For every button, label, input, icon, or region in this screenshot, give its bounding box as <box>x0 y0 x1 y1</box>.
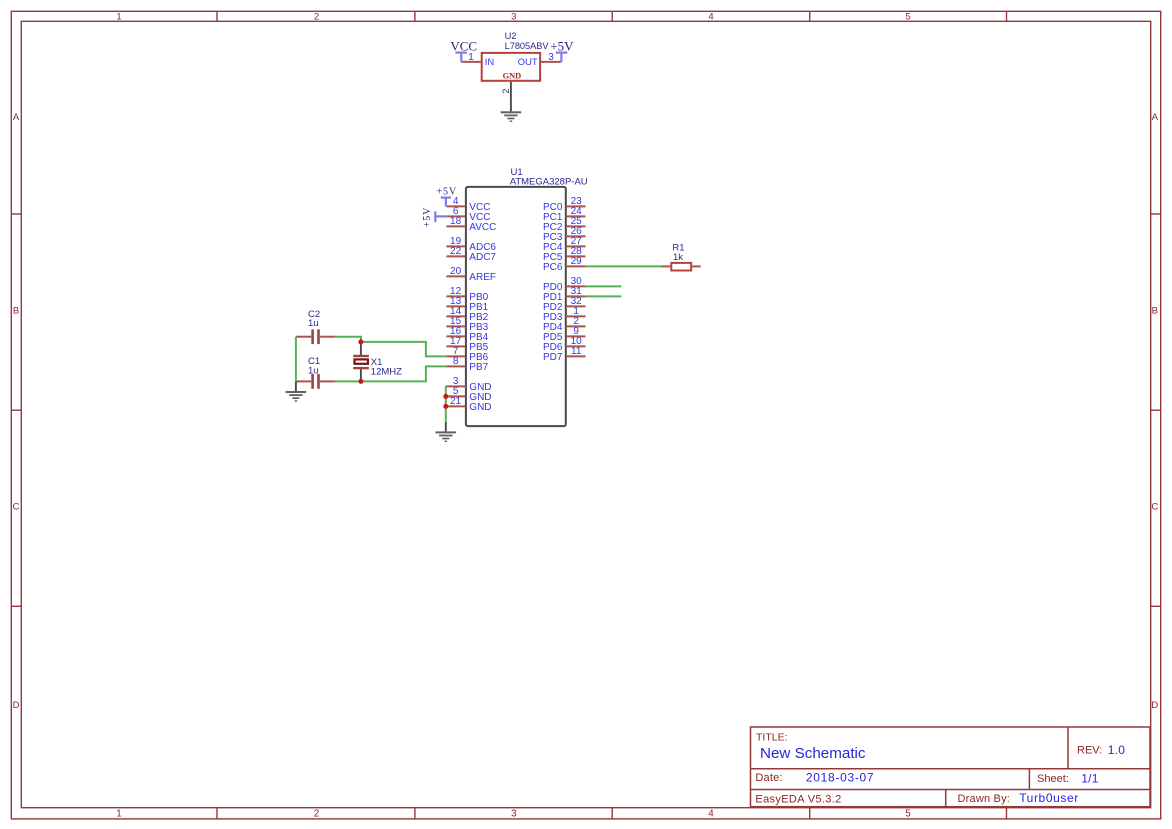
svg-text:22: 22 <box>450 246 462 257</box>
U2 pin 2 <box>501 82 511 102</box>
U1 pin 25 PC2 <box>543 216 586 233</box>
svg-text:3: 3 <box>548 52 554 63</box>
U1 pin 14 PB2 <box>446 306 488 323</box>
U1 pin 32 PD2 <box>543 296 586 313</box>
wire (C2/C1 left to gnd) <box>295 337 297 382</box>
net flag +5V (pin 4) <box>437 186 458 206</box>
ground (left of crystal) <box>286 381 307 401</box>
U1 pin 21 GND <box>446 396 491 413</box>
svg-text:1: 1 <box>116 809 121 820</box>
svg-text:U2: U2 <box>505 31 517 41</box>
svg-text:2: 2 <box>314 12 319 23</box>
svg-text:A: A <box>13 112 20 123</box>
svg-text:29: 29 <box>571 256 583 267</box>
svg-text:PB7: PB7 <box>469 362 488 373</box>
U1 pin 6 VCC <box>446 206 490 223</box>
U1 pin 8 PB7 <box>446 356 488 373</box>
svg-text:C: C <box>13 502 20 513</box>
svg-text:18: 18 <box>450 216 462 227</box>
svg-text:+5V: +5V <box>550 39 574 54</box>
junction (pin 5) <box>443 394 448 399</box>
resistor R1 1k <box>661 243 701 271</box>
U1 pin 30 PD0 <box>543 276 586 293</box>
wire (PD0 stub) <box>586 285 622 287</box>
svg-text:2: 2 <box>501 88 511 93</box>
svg-text:D: D <box>1151 700 1158 711</box>
svg-text:1u: 1u <box>308 318 319 329</box>
U1 pin 1 PD3 <box>543 306 586 323</box>
svg-text:1u: 1u <box>308 365 319 376</box>
net flag VCC <box>450 38 477 62</box>
wire (PC6 to R1) <box>586 265 662 267</box>
svg-text:+5V: +5V <box>422 207 433 228</box>
svg-text:+5V: +5V <box>437 186 458 197</box>
wire (C2 to XTAL top to PB6) <box>335 337 446 357</box>
U1 pin 28 PC5 <box>543 246 586 263</box>
svg-text:2: 2 <box>314 809 319 820</box>
svg-text:5: 5 <box>905 12 910 23</box>
svg-text:Date:: Date: <box>755 772 782 784</box>
svg-text:A: A <box>1152 112 1159 123</box>
svg-text:Drawn By:: Drawn By: <box>958 793 1011 805</box>
svg-text:12MHZ: 12MHZ <box>371 367 402 378</box>
wire (GND pins 3/5/21 down) <box>445 386 447 422</box>
svg-text:TITLE:: TITLE: <box>756 731 788 743</box>
svg-text:D: D <box>13 700 20 711</box>
U1 pin 13 PB1 <box>446 296 488 313</box>
U1 pin 7 PB6 <box>446 346 488 363</box>
svg-text:2018-03-07: 2018-03-07 <box>806 771 874 785</box>
svg-text:GND: GND <box>503 71 522 80</box>
svg-text:5: 5 <box>905 809 911 820</box>
svg-text:GND: GND <box>469 402 491 413</box>
U1 pin 12 PB0 <box>446 286 488 303</box>
svg-text:21: 21 <box>450 396 462 407</box>
U1 pin 11 PD7 <box>543 346 586 363</box>
wire (C1 to XTAL bottom to PB7) <box>335 366 446 381</box>
junction (pin 21) <box>443 404 448 409</box>
U1 pin 10 PD6 <box>543 336 586 353</box>
svg-text:8: 8 <box>453 356 459 367</box>
U1 pin 15 PB3 <box>446 316 488 333</box>
svg-text:ATMEGA328P-AU: ATMEGA328P-AU <box>510 177 588 188</box>
svg-text:3: 3 <box>511 12 516 23</box>
svg-text:AVCC: AVCC <box>469 222 496 233</box>
svg-text:OUT: OUT <box>518 56 538 67</box>
svg-text:REV:: REV: <box>1077 745 1102 757</box>
svg-text:C: C <box>1151 502 1158 513</box>
svg-text:1/1: 1/1 <box>1081 772 1098 786</box>
svg-text:Turb0user: Turb0user <box>1019 791 1079 805</box>
ground (below U2) <box>501 102 522 122</box>
svg-text:Sheet:: Sheet: <box>1037 773 1069 785</box>
svg-text:4: 4 <box>708 12 713 23</box>
net flag +5V rotated (pin 6) <box>422 207 435 228</box>
op-amp U2 L7805ABV regulator <box>482 31 550 81</box>
U1 pin 26 PC3 <box>543 226 586 243</box>
svg-text:1: 1 <box>116 12 121 23</box>
U1 pin 23 PC0 <box>543 196 586 213</box>
capacitor C1 <box>296 356 336 389</box>
svg-text:20: 20 <box>450 266 462 277</box>
U1 pin 17 PB5 <box>446 336 488 353</box>
svg-text:B: B <box>1152 306 1158 317</box>
svg-text:ADC7: ADC7 <box>469 252 496 263</box>
U1 pin 2 PD4 <box>543 316 586 333</box>
U1 pin 27 PC4 <box>543 236 586 253</box>
U1 pin 31 PD1 <box>543 286 586 303</box>
svg-text:1k: 1k <box>673 252 683 263</box>
IC U1 ATMEGA328P-AU <box>466 167 588 426</box>
U1 pin 20 AREF <box>446 266 496 283</box>
U1 pin 29 PC6 <box>543 256 586 273</box>
svg-text:L7805ABV: L7805ABV <box>505 41 550 51</box>
U1 pin 5 GND <box>446 386 491 403</box>
svg-text:3: 3 <box>511 809 517 820</box>
U1 pin 16 PB4 <box>446 326 488 343</box>
svg-text:VCC: VCC <box>450 38 477 53</box>
U1 pin 9 PD5 <box>543 326 586 343</box>
U1 pin 19 ADC6 <box>446 236 496 253</box>
junction (XTAL top) <box>358 339 363 344</box>
crystal X1 12MHZ <box>353 342 402 382</box>
svg-text:PD7: PD7 <box>543 352 563 363</box>
ground (below U1) <box>436 422 457 442</box>
U1 pin 22 ADC7 <box>446 246 496 263</box>
svg-text:1.0: 1.0 <box>1108 743 1125 757</box>
U2 pin 1 <box>461 52 480 63</box>
svg-text:New Schematic: New Schematic <box>760 745 866 762</box>
svg-text:4: 4 <box>708 809 714 820</box>
svg-text:B: B <box>13 306 19 317</box>
junction (XTAL bottom) <box>358 379 363 384</box>
svg-text:PC6: PC6 <box>543 262 563 273</box>
U1 pin 24 PC1 <box>543 206 586 223</box>
svg-text:IN: IN <box>485 56 494 67</box>
U1 pin 3 GND <box>446 376 491 393</box>
net flag +5V (U2 output) <box>550 39 574 62</box>
U2 pin 3 <box>541 52 561 63</box>
wire (PD1 stub) <box>586 295 622 297</box>
U1 pin 4 VCC <box>446 196 490 213</box>
svg-text:1: 1 <box>468 52 474 63</box>
svg-text:AREF: AREF <box>469 272 496 283</box>
svg-text:EasyEDA V5.3.2: EasyEDA V5.3.2 <box>755 794 841 806</box>
wire (+5V flag to pin 6) <box>435 215 446 217</box>
capacitor C2 <box>296 309 336 344</box>
U1 pin 18 AVCC <box>446 216 496 233</box>
svg-text:11: 11 <box>571 346 582 357</box>
